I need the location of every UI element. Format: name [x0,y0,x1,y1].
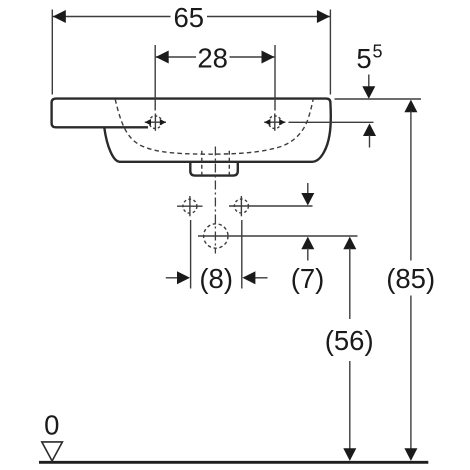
drain hole circle [198,224,358,248]
mounting hole left [177,196,203,216]
svg-text:(8): (8) [199,263,233,294]
dimension 5.5 bottom arrow [363,123,376,136]
faucet hole left [145,114,166,131]
dimension 65 [52,10,330,95]
svg-text:5: 5 [356,43,371,74]
svg-text:5: 5 [372,42,382,62]
floor line [39,461,428,464]
faucet hole right [264,114,285,131]
inner bowl hidden edge (dashed) [115,99,313,154]
dimension 5.5 top arrow [368,75,370,88]
drain trap [190,161,238,176]
svg-text:0: 0 [44,410,59,441]
dimension 28 [155,45,275,111]
svg-text:28: 28 [197,42,228,73]
vertical center line [214,147,216,254]
svg-text:(7): (7) [291,263,325,294]
top reference line [335,98,422,100]
svg-text:(85): (85) [386,263,435,294]
svg-text:65: 65 [174,2,205,33]
svg-text:(56): (56) [325,325,374,356]
washbasin outline [52,99,331,162]
dimension (85) [404,100,417,113]
faucet hole line [289,121,374,123]
dimension (8) [166,220,268,289]
dimension (7) [307,183,309,194]
drain hidden edges (dashed) [202,151,230,175]
dimension (56) [343,237,356,250]
mounting hole right [229,196,313,216]
